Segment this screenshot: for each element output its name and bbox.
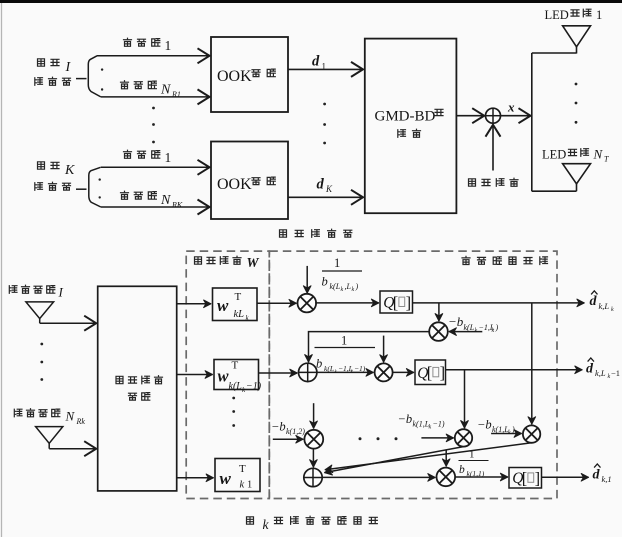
wire: photodetector 1 into remove-DC block: [39, 319, 41, 324]
svg-text:d: d: [312, 54, 320, 70]
wire: d_K arrow from OOK 2 to precoder: [288, 196, 363, 198]
wire: M5 diagonal feedback into A3: [325, 447, 464, 473]
svg-text:−1: −1: [611, 368, 620, 378]
svg-text:kL: kL: [234, 309, 245, 320]
adder A3: [304, 468, 322, 486]
block: w_k(Lk-1) decoder: [214, 360, 262, 395]
label d_1: [312, 54, 326, 72]
label d_K: [317, 177, 334, 195]
wire: dash from user-1 label to brace: [76, 78, 87, 80]
svg-text:N: N: [160, 193, 171, 208]
svg-text:): ): [511, 425, 515, 434]
block: quantizer Q2: [415, 360, 446, 385]
svg-text:LED: LED: [542, 148, 566, 162]
wire: Q2 output to d-hat_k,Lk-1: [446, 369, 583, 371]
svg-text:1: 1: [341, 334, 347, 348]
svg-text:k(L: k(L: [229, 381, 243, 392]
svg-text:b: b: [459, 464, 465, 476]
svg-text:T: T: [235, 291, 242, 303]
svg-text:K: K: [64, 163, 75, 178]
label: 光检测器 N_Rk: [14, 409, 85, 427]
label: user 1 data (用户I 的数据): [35, 59, 72, 85]
svg-text:1: 1: [247, 480, 252, 491]
wire: M2 output left and down into adder A2: [309, 332, 430, 362]
wire: M6 diagonal feedback into A3: [325, 443, 532, 470]
wire: M3 to quantizer Q2: [393, 371, 414, 373]
svg-text:k: k: [341, 287, 344, 293]
wire: gain stub arrow into M3 from above: [383, 336, 385, 363]
svg-text:OOK: OOK: [217, 176, 252, 193]
label: -b_k(1,Lk-1): [398, 412, 445, 431]
label: data stream 1 (user K): [124, 150, 172, 165]
svg-text:−b: −b: [477, 418, 492, 432]
antenna: photodetector N_Rk: [36, 427, 63, 444]
svg-text:b: b: [316, 357, 322, 371]
block: GMD-BD precoder: [365, 39, 457, 214]
svg-text:[: [: [427, 363, 433, 382]
svg-text:T: T: [232, 360, 239, 372]
svg-text:1: 1: [596, 8, 602, 22]
svg-text:T: T: [604, 155, 609, 164]
dots inside user-1 brace: [101, 68, 103, 70]
multiplier M1 (1/b gain): [298, 294, 317, 313]
svg-text:k(1,L: k(1,L: [492, 425, 509, 434]
caption: 系统发射端 (system transmitter): [280, 230, 287, 237]
svg-text:K: K: [325, 184, 333, 194]
svg-text:[: [: [393, 293, 399, 312]
svg-text:N: N: [160, 83, 171, 98]
wire: data stream 1 arrow into OOK modulator 2: [101, 166, 210, 168]
multiplier M4 (-b_k(1,2)): [304, 430, 323, 449]
wire: photodetector N_Rk into remove-DC block: [48, 443, 50, 448]
wire: gain stub arrow into M1 from above: [306, 266, 308, 293]
caption: 第k个用户的接收端 (receiver of user k): [247, 516, 378, 532]
dots between user groups: [152, 107, 155, 110]
svg-text:w: w: [217, 296, 229, 315]
svg-text:k(L: k(L: [330, 282, 341, 291]
svg-text:T: T: [239, 463, 246, 475]
multiplier M2 (-b_k(Lk-1,Lk)): [429, 322, 448, 341]
wire: A2 to multiplier M3: [317, 371, 374, 373]
svg-text:N: N: [65, 409, 76, 424]
label: data stream 1 (user 1): [124, 38, 172, 53]
wire: precoder output into DC-bias adder: [456, 115, 484, 117]
svg-text:): ): [355, 282, 359, 291]
wire: data stream 1 arrow into OOK modulator 1: [97, 55, 210, 57]
label: output d-hat_k,Lk: [590, 291, 615, 313]
wire: branch to LED array N_T: [532, 190, 577, 192]
svg-text:): ): [495, 323, 499, 332]
label: 解码矩阵W: [195, 255, 260, 270]
dashed box: decision feedback equalizer region: [269, 251, 557, 498]
coefficient stub arrow into M6: [491, 433, 521, 435]
block: quantizer Q1: [380, 291, 413, 313]
wire: d_1 arrow from OOK 1 to precoder: [288, 68, 363, 70]
wire: M4 output down into adder A3: [312, 449, 314, 468]
dots inside user-K brace: [99, 178, 101, 180]
wire: vertical bus to LED arrays: [531, 53, 533, 191]
adder A2: [299, 363, 317, 381]
svg-text:−b: −b: [448, 314, 464, 329]
label: fraction 1/b_k(1,1): [459, 449, 489, 479]
svg-text:k: k: [429, 425, 432, 431]
wire: branch to LED array 1: [532, 52, 577, 54]
label: 光检测器 I: [9, 285, 63, 300]
svg-text:LED: LED: [545, 8, 569, 22]
svg-text:−1): −1): [246, 381, 262, 392]
block: remove DC bias (移除直流偏置): [98, 286, 177, 491]
svg-text:k(L: k(L: [464, 323, 475, 332]
adder: DC bias summing node: [486, 108, 501, 123]
label: LED array N_T: [542, 147, 609, 164]
block: quantizer Q3: [509, 468, 542, 489]
svg-text:k(L: k(L: [324, 364, 334, 373]
svg-text:−b: −b: [398, 412, 413, 426]
antenna: photodetector 1: [26, 302, 54, 319]
svg-text:b: b: [322, 275, 328, 289]
svg-text:,L: ,L: [345, 282, 352, 291]
svg-text:x: x: [507, 100, 515, 115]
label: user K data (用户K 的数据): [35, 162, 75, 191]
label: output d-hat_k,Lk-1: [586, 358, 620, 380]
wire: remove-DC to w_k(Lk-1): [177, 374, 213, 376]
dots between d_1 and d_K: [323, 103, 326, 106]
brace: user 1 stream bundle: [88, 56, 101, 97]
svg-text:d: d: [593, 468, 601, 483]
svg-text:−1): −1): [433, 420, 445, 429]
wire: x output arrow to LED bus: [501, 115, 531, 117]
wire: Q3 output to d-hat_k,1: [542, 476, 589, 478]
wire: M1 to quantizer Q1: [315, 302, 379, 304]
svg-text:k(1,L: k(1,L: [413, 420, 430, 429]
label: output d-hat_k,1: [593, 464, 612, 484]
svg-text:−1): −1): [354, 364, 366, 373]
svg-text:k: k: [352, 287, 355, 293]
dots between decoder blocks: [232, 397, 235, 400]
left page-edge line: [1, 3, 3, 537]
top black page-edge bar: [0, 0, 622, 3]
wire: Q1 output to d-hat_k,Lk: [413, 302, 585, 304]
svg-text:Rk: Rk: [76, 417, 86, 426]
svg-text:k,1: k,1: [602, 474, 612, 484]
label: fraction 1/b_k(Lk-1,Lk-1): [315, 334, 376, 376]
wire: DC bias arrow up into adder: [492, 125, 494, 171]
svg-text:GMD-BD: GMD-BD: [375, 109, 436, 125]
wire: w_kLk output into multiplier M1: [257, 302, 296, 304]
svg-text:w: w: [220, 469, 232, 488]
antenna: LED array 1: [563, 26, 591, 47]
label: fraction 1/b_k(Lk,Lk): [322, 256, 363, 293]
label: data stream N_R1: [121, 81, 181, 99]
svg-text:]: ]: [535, 469, 541, 488]
wire: remove-DC to w_kLk: [177, 303, 211, 305]
svg-text:]: ]: [406, 293, 412, 312]
horizontal dots (omitted taps): [359, 437, 362, 440]
svg-text:k: k: [508, 430, 511, 436]
wire: remove-DC to w_k1: [177, 477, 214, 479]
svg-text:k(1,2): k(1,2): [286, 427, 305, 436]
wire: stub arrow from above into M4: [313, 403, 315, 428]
label: 决策反馈均衡: [462, 256, 470, 264]
svg-text:d: d: [317, 177, 325, 193]
wire: feedback drop from row1 into M2: [438, 303, 440, 321]
svg-text:RK: RK: [171, 201, 183, 210]
coefficient stub arrow into M5: [421, 437, 453, 439]
svg-text:[: [: [522, 469, 528, 488]
label: -b_k(Lk-1,Lk): [448, 314, 499, 334]
wire: dash from user-K label to brace: [76, 188, 87, 190]
label: -b_k(1,2): [271, 420, 305, 437]
block: OOK modulator 1: [211, 37, 288, 112]
wire: M7 to quantizer Q3: [455, 476, 508, 478]
svg-text:k,L: k,L: [595, 368, 606, 378]
svg-text:k: k: [263, 517, 270, 532]
svg-text:k: k: [492, 328, 495, 334]
multiplier M5 (-b_k(1,Lk-1)): [455, 429, 472, 446]
svg-text:k: k: [611, 307, 614, 313]
svg-text:d: d: [586, 362, 594, 377]
wire: gain stub arrow into M7 from above: [445, 450, 447, 467]
label: LED array 1: [545, 8, 603, 22]
multiplier M7 (1/b gain): [437, 468, 456, 487]
svg-text:k: k: [475, 328, 478, 334]
label: 直流偏置 (DC bias): [469, 179, 476, 186]
wire: data stream N_R1 arrow into OOK modulator 1: [101, 96, 210, 98]
multiplier M3 (1/b gain): [375, 363, 393, 381]
svg-text:−b: −b: [271, 420, 286, 434]
brace: user K stream bundle: [89, 167, 101, 207]
svg-text:1: 1: [165, 150, 172, 165]
svg-text:1: 1: [334, 256, 340, 270]
dots between photodetectors: [40, 343, 43, 346]
block: w_kLk decoder: [213, 288, 258, 322]
svg-text:k: k: [240, 480, 245, 491]
wire: data stream N_RK arrow into OOK modulator 2: [101, 206, 210, 208]
block: w_k1 decoder: [215, 459, 260, 492]
label: -b_k(1,Lk): [477, 418, 515, 437]
svg-text:1: 1: [469, 449, 475, 461]
dots between LED arrays: [575, 83, 578, 86]
antenna: LED array N_T: [563, 164, 591, 184]
dashed box: decoding matrix W region: [186, 251, 269, 498]
svg-text:I: I: [58, 285, 64, 300]
svg-text:k,L: k,L: [599, 301, 610, 311]
svg-text:W: W: [247, 255, 260, 270]
label: data stream N_RK: [121, 191, 183, 209]
svg-text:OOK: OOK: [217, 68, 252, 85]
wire: long feedback drop from row1 into M6: [531, 303, 533, 424]
coefficient stub arrow into M2: [449, 331, 482, 333]
coefficient stub arrow into M4 from left: [273, 438, 303, 440]
multiplier M6 (-b_k(1,Lk)): [523, 425, 540, 442]
svg-text:]: ]: [440, 363, 446, 382]
svg-text:1: 1: [165, 38, 172, 53]
wire: feedback drop from row2 into M5: [464, 370, 466, 428]
svg-text:d: d: [590, 294, 598, 309]
wire: w_k(Lk-1) output into adder A2: [259, 372, 298, 374]
wire: A3 to multiplier M7: [322, 476, 435, 478]
block: OOK modulator 2: [211, 142, 288, 220]
svg-text:N: N: [593, 147, 604, 162]
